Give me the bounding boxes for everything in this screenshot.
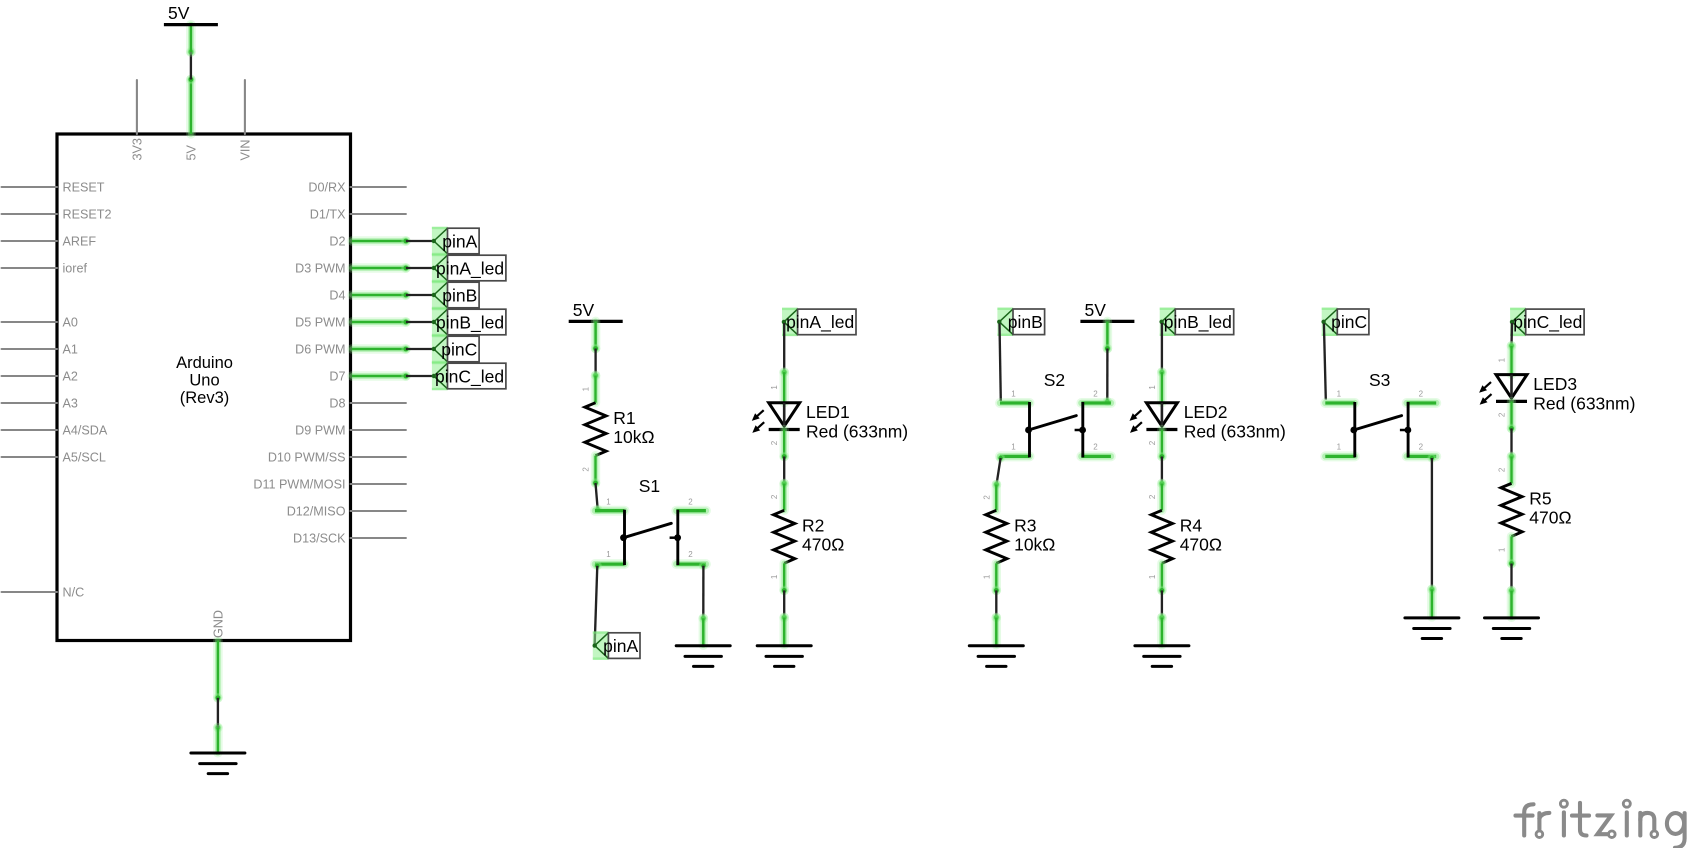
svg-text:S3: S3: [1369, 370, 1390, 390]
svg-text:D0/RX: D0/RX: [308, 181, 346, 195]
svg-text:1: 1: [606, 497, 611, 506]
wire: [401, 263, 434, 273]
pin A0: [2, 316, 78, 330]
svg-text:A2: A2: [63, 370, 78, 384]
resistor R4 470Ω: [1151, 510, 1222, 563]
svg-text:R1: R1: [613, 408, 635, 428]
pin D11 PWM/MOSI: [253, 478, 406, 492]
fritzing watermark logo: [1516, 800, 1685, 848]
svg-text:D2: D2: [329, 235, 345, 249]
svg-text:2: 2: [1148, 494, 1157, 499]
net label pinB: [997, 308, 1045, 336]
net label pinB_led: [432, 308, 506, 336]
svg-text:5V: 5V: [1084, 300, 1106, 320]
pin D6 PWM: [295, 343, 406, 357]
svg-text:D5 PWM: D5 PWM: [295, 316, 345, 330]
svg-text:Uno: Uno: [189, 372, 219, 390]
svg-text:ioref: ioref: [63, 262, 88, 276]
svg-text:LED1: LED1: [806, 402, 850, 422]
svg-text:1: 1: [982, 574, 991, 579]
pin GND: [211, 610, 225, 698]
pin D12/MISO: [287, 505, 406, 519]
svg-text:D1/TX: D1/TX: [310, 208, 346, 222]
svg-text:2: 2: [1148, 440, 1157, 445]
switch S1: [595, 476, 706, 565]
svg-text:2: 2: [1419, 390, 1424, 399]
wire LED3 to R5: [1507, 424, 1517, 462]
net label pinB_led: [1159, 308, 1233, 336]
switch S3: [1325, 370, 1436, 458]
LED2 pin 1: [1157, 372, 1166, 403]
ground GND6: [1405, 618, 1459, 639]
svg-text:2: 2: [1093, 442, 1098, 451]
net label pinC_led: [432, 362, 506, 390]
svg-text:2: 2: [582, 467, 591, 472]
svg-text:RESET: RESET: [63, 181, 105, 195]
svg-text:(Rev3): (Rev3): [180, 389, 230, 407]
wire 5V supply to U1: [186, 25, 196, 85]
R5 pin 1: [1507, 536, 1516, 563]
pin D3 PWM: [295, 262, 406, 276]
wire S1 to ground: [699, 561, 709, 645]
R1 pin 2: [591, 456, 600, 483]
svg-text:1: 1: [582, 386, 591, 391]
LED1 pin 1: [780, 372, 789, 403]
svg-text:AREF: AREF: [63, 235, 97, 249]
svg-text:pinA_led: pinA_led: [786, 312, 854, 333]
svg-text:2: 2: [688, 550, 693, 559]
pin D7: [329, 370, 406, 384]
wire: [401, 290, 434, 300]
ground GND7: [1485, 618, 1539, 639]
ground GND2: [676, 646, 730, 667]
net label pinA: [432, 227, 480, 255]
wire pinB_led to LED2: [1157, 323, 1167, 377]
switch S2: [1000, 370, 1111, 458]
svg-text:LED3: LED3: [1533, 374, 1577, 394]
LED1 pin 2: [780, 430, 789, 457]
pin RESET: [2, 181, 105, 195]
svg-text:2: 2: [1419, 442, 1424, 451]
svg-text:pinC_led: pinC_led: [435, 366, 504, 387]
svg-text:2: 2: [770, 494, 779, 499]
svg-text:Red (633nm): Red (633nm): [1533, 393, 1635, 413]
svg-text:D7: D7: [329, 370, 345, 384]
pin A5/SCL: [2, 451, 106, 465]
svg-text:pinA_led: pinA_led: [436, 258, 504, 279]
LED LED3 Red (633nm): [1479, 374, 1635, 413]
svg-text:GND: GND: [211, 610, 225, 638]
svg-text:1: 1: [1337, 390, 1342, 399]
svg-text:10kΩ: 10kΩ: [1014, 535, 1055, 555]
svg-text:1: 1: [606, 550, 611, 559]
svg-text:2: 2: [770, 440, 779, 445]
net label pinC: [432, 335, 480, 363]
pin D10 PWM/SS: [268, 451, 406, 465]
resistor R1 10kΩ: [585, 403, 655, 456]
svg-text:pinA: pinA: [603, 636, 638, 656]
svg-text:R2: R2: [802, 516, 824, 536]
pin N/C: [2, 586, 85, 600]
net label pinB: [432, 281, 480, 309]
svg-text:Red (633nm): Red (633nm): [806, 422, 908, 442]
svg-text:VIN: VIN: [238, 140, 252, 161]
pin 5V: [184, 80, 198, 161]
pin VIN: [238, 80, 252, 161]
ground GND4: [969, 646, 1023, 667]
ground GND5: [1135, 646, 1189, 667]
svg-text:1: 1: [1498, 547, 1507, 552]
pin A3: [2, 397, 78, 411]
svg-text:D11 PWM/MOSI: D11 PWM/MOSI: [253, 478, 345, 492]
svg-text:2: 2: [1498, 467, 1507, 472]
R3 pin 1: [992, 563, 1001, 590]
pin A2: [2, 370, 78, 384]
svg-text:2: 2: [1498, 412, 1507, 417]
power symbol P2 5V: [569, 300, 623, 322]
wire pinC to S3: [1324, 324, 1326, 400]
svg-text:470Ω: 470Ω: [1529, 508, 1571, 528]
wire R1 to S1: [591, 478, 603, 514]
ground GND1: [191, 753, 245, 774]
LED2 pin 2: [1157, 430, 1166, 457]
wire S2 to R3: [992, 453, 1006, 489]
wire R4 to ground: [1157, 586, 1167, 645]
pin D9 PWM: [295, 424, 406, 438]
svg-text:D10 PWM/SS: D10 PWM/SS: [268, 451, 346, 465]
svg-text:RESET2: RESET2: [63, 208, 112, 222]
LED3 pin 1: [1507, 346, 1516, 375]
svg-text:1: 1: [1148, 385, 1157, 390]
svg-text:pinB: pinB: [442, 285, 477, 305]
ground GND3: [757, 646, 811, 667]
svg-text:R5: R5: [1529, 489, 1551, 509]
svg-text:470Ω: 470Ω: [1180, 535, 1222, 555]
svg-text:pinC_led: pinC_led: [1513, 312, 1582, 333]
svg-text:1: 1: [770, 574, 779, 579]
resistor R2 470Ω: [774, 510, 845, 563]
R5 pin 2: [1507, 456, 1516, 483]
svg-text:D13/SCK: D13/SCK: [293, 532, 346, 546]
svg-text:5V: 5V: [168, 3, 190, 23]
pin D5 PWM: [295, 316, 406, 330]
R3 pin 2: [992, 485, 1001, 511]
R4 pin 1: [1157, 563, 1166, 590]
resistor R3 10kΩ: [986, 510, 1056, 563]
svg-text:1: 1: [1498, 357, 1507, 362]
wire: [401, 236, 434, 246]
pin ioref: [2, 262, 88, 276]
pin RESET2: [2, 208, 112, 222]
svg-text:R4: R4: [1180, 516, 1203, 536]
wire: [401, 317, 434, 327]
resistor R5 470Ω: [1501, 483, 1572, 536]
net label pinC_led: [1510, 308, 1584, 336]
svg-text:pinA: pinA: [442, 231, 477, 251]
LED LED1 Red (633nm): [752, 402, 908, 441]
LED LED2 Red (633nm): [1130, 402, 1286, 441]
pin A4/SDA: [2, 424, 108, 438]
wire: [401, 344, 434, 354]
svg-text:1: 1: [1148, 574, 1157, 579]
svg-text:A3: A3: [63, 397, 78, 411]
wire S3 to ground: [1427, 453, 1437, 617]
svg-text:5V: 5V: [184, 144, 198, 160]
svg-text:D12/MISO: D12/MISO: [287, 505, 346, 519]
svg-text:10kΩ: 10kΩ: [613, 427, 654, 447]
R1 pin 1: [591, 376, 600, 403]
wire S1 to pinA: [593, 561, 602, 644]
LED3 pin 2: [1507, 401, 1516, 428]
svg-text:3V3: 3V3: [130, 138, 144, 160]
pin A1: [2, 343, 78, 357]
svg-text:Arduino: Arduino: [176, 354, 233, 372]
svg-text:pinB: pinB: [1008, 312, 1043, 332]
svg-text:A5/SCL: A5/SCL: [63, 451, 106, 465]
svg-text:Red (633nm): Red (633nm): [1184, 422, 1286, 442]
wire: [401, 371, 434, 381]
net label pinA_led: [782, 308, 856, 336]
R4 pin 2: [1157, 484, 1166, 511]
svg-text:D8: D8: [329, 397, 345, 411]
pin 3V3: [130, 80, 144, 161]
svg-text:N/C: N/C: [63, 586, 85, 600]
wire R2 to ground: [779, 586, 789, 645]
svg-text:S2: S2: [1044, 370, 1065, 390]
svg-text:2: 2: [688, 497, 693, 506]
svg-text:pinC: pinC: [441, 339, 477, 359]
pin D13/SCK: [293, 532, 406, 546]
svg-text:2: 2: [982, 495, 991, 500]
wire pinB to S2: [1000, 324, 1001, 402]
svg-text:pinB_led: pinB_led: [436, 312, 504, 333]
wire R3 to ground: [992, 586, 1002, 645]
wire pinA_led to LED1: [779, 323, 789, 377]
wire pinC_led to LED3: [1507, 323, 1517, 351]
svg-text:pinC: pinC: [1331, 312, 1367, 332]
power symbol P3 5V: [1080, 300, 1134, 322]
wire 5V to R1: [591, 321, 601, 380]
svg-text:A1: A1: [63, 343, 78, 357]
power symbol P1 5V: [164, 3, 218, 25]
wire R5 to ground: [1507, 559, 1517, 618]
pin D1/TX: [310, 208, 406, 222]
svg-text:470Ω: 470Ω: [802, 535, 844, 555]
svg-text:1: 1: [1011, 442, 1016, 451]
svg-text:1: 1: [1337, 442, 1342, 451]
pin AREF: [2, 235, 97, 249]
pin D0/RX: [308, 181, 405, 195]
svg-text:1: 1: [1011, 390, 1016, 399]
wire LED1 to R2: [779, 452, 789, 489]
wire LED2 to R4: [1157, 452, 1167, 489]
wire 5V to S2: [1103, 321, 1113, 406]
net label pinC: [1321, 308, 1369, 336]
net label pinA: [593, 631, 641, 659]
pin D8: [329, 397, 406, 411]
svg-text:D3 PWM: D3 PWM: [295, 262, 345, 276]
wire U1 GND to ground: [213, 693, 223, 753]
pin D2: [329, 235, 406, 249]
svg-text:S1: S1: [639, 476, 660, 496]
R2 pin 1: [780, 563, 789, 590]
svg-text:2: 2: [1093, 390, 1098, 399]
svg-text:D9 PWM: D9 PWM: [295, 424, 345, 438]
svg-text:5V: 5V: [573, 300, 595, 320]
svg-text:LED2: LED2: [1184, 402, 1228, 422]
svg-text:pinB_led: pinB_led: [1164, 312, 1232, 333]
svg-text:1: 1: [770, 385, 779, 390]
svg-text:D4: D4: [329, 289, 345, 303]
svg-text:A4/SDA: A4/SDA: [63, 424, 108, 438]
net label pinA_led: [432, 254, 506, 282]
svg-text:A0: A0: [63, 316, 78, 330]
pin D4: [329, 289, 406, 303]
R2 pin 2: [780, 484, 789, 511]
Arduino Uno (Rev3) U1 body: [57, 134, 351, 641]
svg-text:R3: R3: [1014, 516, 1036, 536]
svg-text:D6 PWM: D6 PWM: [295, 343, 345, 357]
